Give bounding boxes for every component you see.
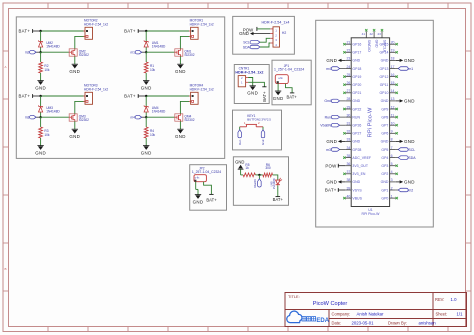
svg-text:SI2302: SI2302 bbox=[79, 53, 89, 57]
svg-text:m1: m1 bbox=[408, 67, 413, 71]
svg-text:21: 21 bbox=[346, 41, 350, 45]
svg-text:RPi Pico-W: RPi Pico-W bbox=[367, 107, 373, 137]
svg-text:3V3_OUT: 3V3_OUT bbox=[352, 164, 368, 168]
svg-text:23: 23 bbox=[346, 57, 350, 61]
svg-text:1N4148D: 1N4148D bbox=[152, 45, 166, 49]
svg-text:GND: GND bbox=[326, 180, 337, 185]
svg-text:GP3: GP3 bbox=[381, 164, 388, 168]
svg-text:1_257-1-04_C2324: 1_257-1-04_C2324 bbox=[192, 170, 221, 174]
svg-text:GP26: GP26 bbox=[352, 124, 361, 128]
svg-text:SI2302: SI2302 bbox=[79, 118, 89, 122]
svg-text:16: 16 bbox=[391, 73, 395, 77]
svg-text:SI2302: SI2302 bbox=[184, 118, 194, 122]
svg-text:GP21: GP21 bbox=[352, 91, 361, 95]
svg-text:3V3_EN: 3V3_EN bbox=[352, 172, 366, 176]
svg-text:1: 1 bbox=[391, 194, 393, 198]
svg-text:1N4148D: 1N4148D bbox=[152, 110, 166, 114]
svg-text:Gnd: Gnd bbox=[324, 99, 331, 103]
svg-text:GP28: GP28 bbox=[352, 148, 361, 152]
svg-text:10k: 10k bbox=[150, 133, 156, 137]
svg-text:u-fix: u-fix bbox=[195, 177, 200, 180]
svg-text:12: 12 bbox=[391, 105, 395, 109]
svg-text:A: A bbox=[4, 65, 6, 69]
svg-text:HDR-F-2.54_1x2: HDR-F-2.54_1x2 bbox=[190, 87, 214, 91]
svg-text:10k: 10k bbox=[150, 68, 156, 72]
svg-text:GP1: GP1 bbox=[381, 188, 388, 192]
svg-text:m1: m1 bbox=[130, 51, 135, 55]
svg-text:5: 5 bbox=[391, 162, 393, 166]
svg-text:9: 9 bbox=[391, 130, 393, 134]
svg-text:GND: GND bbox=[35, 85, 46, 90]
svg-text:B: B bbox=[4, 267, 6, 271]
svg-text:m3: m3 bbox=[326, 148, 331, 152]
svg-text:25: 25 bbox=[346, 73, 350, 77]
svg-text:GND: GND bbox=[352, 140, 360, 144]
svg-text:m4: m4 bbox=[326, 67, 331, 71]
svg-text:13: 13 bbox=[391, 97, 395, 101]
svg-text:VbatIN: VbatIN bbox=[253, 179, 257, 188]
svg-text:GP7: GP7 bbox=[381, 124, 388, 128]
svg-text:15: 15 bbox=[391, 81, 395, 85]
svg-text:ADC_VREF: ADC_VREF bbox=[352, 156, 371, 160]
svg-text:REV:: REV: bbox=[435, 297, 444, 302]
svg-text:35: 35 bbox=[346, 154, 350, 158]
svg-text:10k: 10k bbox=[44, 133, 50, 137]
svg-text:36: 36 bbox=[346, 162, 350, 166]
svg-text:BAT+: BAT+ bbox=[19, 29, 31, 34]
svg-text:14: 14 bbox=[391, 89, 395, 93]
svg-text:Date:: Date: bbox=[332, 321, 342, 326]
svg-text:SWCLK: SWCLK bbox=[383, 40, 387, 53]
svg-text:24: 24 bbox=[346, 65, 350, 69]
svg-text:HDR-F-2.54_1x2: HDR-F-2.54_1x2 bbox=[190, 22, 214, 26]
svg-text:GP16: GP16 bbox=[352, 43, 361, 47]
svg-text:m2: m2 bbox=[25, 51, 30, 55]
svg-text:41: 41 bbox=[362, 32, 366, 36]
svg-text:BAT+: BAT+ bbox=[124, 29, 136, 34]
svg-text:GP20: GP20 bbox=[352, 83, 361, 87]
svg-text:43: 43 bbox=[377, 32, 381, 36]
svg-text:GND: GND bbox=[352, 59, 360, 63]
svg-text:GND: GND bbox=[141, 85, 152, 90]
svg-text:1N4148D: 1N4148D bbox=[46, 45, 60, 49]
svg-text:19: 19 bbox=[391, 49, 395, 53]
svg-text:HDR-F-2.54_1x4: HDR-F-2.54_1x4 bbox=[262, 21, 290, 25]
svg-text:GND: GND bbox=[352, 180, 360, 184]
svg-text:28: 28 bbox=[346, 97, 350, 101]
svg-text:GND: GND bbox=[247, 91, 258, 96]
svg-text:BAT+: BAT+ bbox=[262, 91, 267, 102]
svg-text:GND: GND bbox=[193, 199, 204, 204]
svg-text:40: 40 bbox=[346, 194, 350, 198]
svg-text:RPi Pico-W: RPi Pico-W bbox=[362, 212, 381, 216]
svg-text:1N4148D: 1N4148D bbox=[46, 110, 60, 114]
svg-text:BAT+: BAT+ bbox=[124, 94, 136, 99]
svg-text:GP11: GP11 bbox=[380, 83, 389, 87]
svg-text:4: 4 bbox=[391, 170, 393, 174]
svg-text:GP12: GP12 bbox=[379, 75, 388, 79]
svg-text:HDR-F-2.54_1x2: HDR-F-2.54_1x2 bbox=[84, 22, 108, 26]
svg-text:GP2: GP2 bbox=[381, 172, 388, 176]
svg-text:SI2302: SI2302 bbox=[184, 53, 194, 57]
svg-text:6: 6 bbox=[391, 154, 393, 158]
svg-text:H2: H2 bbox=[282, 31, 286, 35]
svg-text:GND: GND bbox=[326, 139, 337, 144]
svg-text:1k: 1k bbox=[245, 166, 249, 170]
svg-text:31: 31 bbox=[346, 122, 350, 126]
svg-text:GP22: GP22 bbox=[352, 107, 361, 111]
svg-text:VBUS: VBUS bbox=[352, 196, 362, 200]
svg-text:34: 34 bbox=[346, 146, 350, 150]
svg-text:BAT+: BAT+ bbox=[325, 188, 337, 193]
svg-text:GP10: GP10 bbox=[379, 91, 388, 95]
svg-text:Drawn By:: Drawn By: bbox=[388, 321, 407, 326]
svg-text:17: 17 bbox=[391, 65, 395, 69]
svg-text:3: 3 bbox=[391, 178, 393, 182]
svg-text:GND: GND bbox=[69, 134, 80, 139]
svg-text:GP18: GP18 bbox=[352, 67, 361, 71]
svg-text:GP13: GP13 bbox=[379, 67, 388, 71]
svg-text:7: 7 bbox=[391, 146, 393, 150]
svg-text:39: 39 bbox=[346, 186, 350, 190]
svg-text:11: 11 bbox=[391, 113, 395, 117]
svg-text:SDA: SDA bbox=[243, 45, 251, 49]
svg-text:GND: GND bbox=[381, 59, 389, 63]
svg-text:GND: GND bbox=[141, 150, 152, 155]
svg-text:42: 42 bbox=[369, 32, 373, 36]
svg-text:GND: GND bbox=[404, 58, 415, 63]
svg-text:TITLE:: TITLE: bbox=[288, 294, 300, 299]
svg-text:SCL: SCL bbox=[408, 148, 415, 152]
svg-text:EDA: EDA bbox=[316, 318, 329, 324]
svg-text:GP17: GP17 bbox=[352, 51, 361, 55]
svg-text:GND: GND bbox=[175, 134, 186, 139]
svg-text:GND: GND bbox=[175, 69, 186, 74]
svg-text:SCL: SCL bbox=[243, 41, 250, 45]
svg-text:29: 29 bbox=[346, 105, 350, 109]
svg-text:30: 30 bbox=[346, 113, 350, 117]
svg-text:Run: Run bbox=[238, 139, 242, 145]
svg-text:GP19: GP19 bbox=[352, 75, 361, 79]
svg-text:1N4148D: 1N4148D bbox=[272, 178, 276, 189]
svg-text:GND: GND bbox=[352, 99, 360, 103]
svg-text:8: 8 bbox=[391, 138, 393, 142]
svg-text:BAT+: BAT+ bbox=[286, 95, 297, 100]
svg-text:GND: GND bbox=[273, 96, 284, 101]
svg-text:BAT+: BAT+ bbox=[206, 198, 217, 203]
svg-text:GND: GND bbox=[239, 31, 249, 36]
svg-text:Run: Run bbox=[325, 115, 331, 119]
svg-text:37: 37 bbox=[346, 170, 350, 174]
svg-text:Company:: Company: bbox=[332, 312, 351, 317]
svg-text:22: 22 bbox=[346, 49, 350, 53]
svg-text:HDR-F-2.54_1x2: HDR-F-2.54_1x2 bbox=[84, 87, 108, 91]
svg-text:2023-05-01: 2023-05-01 bbox=[352, 321, 375, 326]
svg-text:GP9: GP9 bbox=[381, 107, 388, 111]
svg-text:m3: m3 bbox=[25, 116, 30, 120]
svg-text:GND: GND bbox=[235, 160, 244, 165]
svg-text:GND: GND bbox=[381, 99, 389, 103]
svg-text:HDR-F-2.54_1x2: HDR-F-2.54_1x2 bbox=[235, 70, 263, 74]
svg-text:u-fix: u-fix bbox=[278, 77, 283, 80]
svg-text:BAT+: BAT+ bbox=[273, 197, 284, 202]
svg-text:SDA: SDA bbox=[408, 156, 416, 160]
svg-text:27: 27 bbox=[346, 89, 350, 93]
svg-text:1_257-1-04_C2324: 1_257-1-04_C2324 bbox=[274, 68, 304, 72]
svg-text:10k: 10k bbox=[44, 68, 50, 72]
svg-text:m4: m4 bbox=[130, 116, 135, 120]
svg-text:GP27: GP27 bbox=[352, 132, 361, 136]
svg-text:300: 300 bbox=[265, 166, 271, 170]
svg-text:Gnd: Gnd bbox=[261, 139, 265, 145]
svg-text:GP4: GP4 bbox=[381, 156, 388, 160]
svg-text:1/1: 1/1 bbox=[457, 312, 464, 317]
svg-text:GND: GND bbox=[404, 99, 415, 104]
svg-text:33: 33 bbox=[346, 138, 350, 142]
svg-text:GND: GND bbox=[375, 40, 379, 48]
svg-text:GP6: GP6 bbox=[381, 132, 388, 136]
svg-text:GND: GND bbox=[69, 69, 80, 74]
svg-text:26: 26 bbox=[346, 81, 350, 85]
svg-text:20: 20 bbox=[391, 41, 395, 45]
svg-text:32: 32 bbox=[346, 130, 350, 134]
svg-text:10: 10 bbox=[391, 122, 395, 126]
svg-text:PicoW Copter: PicoW Copter bbox=[313, 301, 348, 307]
svg-text:Sheet:: Sheet: bbox=[436, 312, 448, 317]
svg-text:1.0: 1.0 bbox=[451, 297, 458, 302]
svg-text:GP5: GP5 bbox=[381, 148, 388, 152]
svg-text:GND: GND bbox=[404, 180, 415, 185]
svg-text:GND: GND bbox=[381, 140, 389, 144]
svg-text:RUN: RUN bbox=[352, 115, 360, 119]
svg-text:GND: GND bbox=[381, 180, 389, 184]
svg-text:anishsan: anishsan bbox=[419, 321, 437, 326]
svg-text:38: 38 bbox=[346, 178, 350, 182]
svg-text:2: 2 bbox=[391, 186, 393, 190]
svg-text:VbatIN: VbatIN bbox=[320, 124, 331, 128]
svg-text:Anish Natekar: Anish Natekar bbox=[357, 312, 385, 317]
svg-text:SWDIO: SWDIO bbox=[367, 40, 371, 52]
svg-text:GP8: GP8 bbox=[381, 115, 388, 119]
svg-text:GND: GND bbox=[404, 139, 415, 144]
svg-text:POW: POW bbox=[325, 163, 337, 168]
svg-text:VSYS: VSYS bbox=[352, 188, 362, 192]
svg-text:GP0: GP0 bbox=[381, 196, 388, 200]
svg-text:18: 18 bbox=[391, 57, 395, 61]
svg-text:BAT+: BAT+ bbox=[19, 94, 31, 99]
svg-text:GND: GND bbox=[326, 58, 337, 63]
svg-text:GND: GND bbox=[35, 150, 46, 155]
svg-text:m2: m2 bbox=[408, 188, 413, 192]
